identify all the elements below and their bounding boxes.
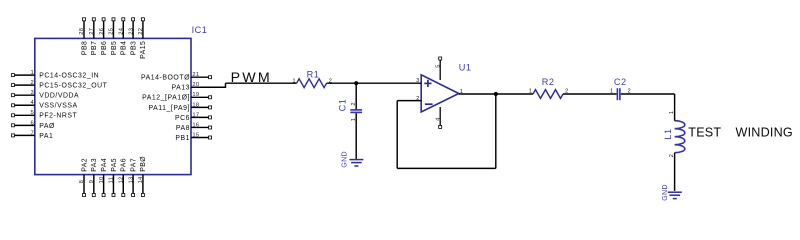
svg-text:13: 13 [128, 177, 134, 184]
svg-text:27: 27 [89, 28, 95, 35]
svg-text:VSS/VSSA: VSS/VSSA [39, 103, 77, 110]
svg-text:PA12_[PA1Ø]: PA12_[PA1Ø] [142, 95, 190, 102]
svg-text:5: 5 [30, 110, 33, 116]
svg-text:25: 25 [109, 28, 115, 35]
svg-text:4: 4 [30, 100, 34, 106]
svg-text:15: 15 [192, 132, 199, 138]
svg-text:7: 7 [30, 130, 33, 136]
svg-text:PA15: PA15 [140, 41, 147, 59]
svg-text:1: 1 [292, 78, 295, 84]
svg-text:PB6: PB6 [101, 41, 108, 55]
svg-text:6: 6 [30, 120, 33, 126]
svg-text:PA4: PA4 [101, 158, 108, 172]
svg-text:WINDING: WINDING [736, 126, 793, 140]
svg-text:PB1: PB1 [175, 135, 190, 142]
svg-text:2: 2 [565, 88, 568, 94]
svg-text:TEST: TEST [688, 126, 721, 140]
svg-text:11: 11 [109, 177, 115, 183]
svg-text:PA6: PA6 [121, 158, 128, 172]
svg-text:PBØ: PBØ [140, 156, 147, 172]
svg-text:3: 3 [416, 78, 419, 84]
svg-text:1: 1 [460, 89, 463, 95]
svg-text:1: 1 [30, 70, 33, 76]
svg-text:PF2-NRST: PF2-NRST [39, 113, 77, 120]
svg-text:1: 1 [529, 88, 532, 94]
svg-text:IC1: IC1 [192, 25, 208, 35]
svg-text:12: 12 [118, 177, 124, 184]
svg-text:24: 24 [118, 27, 124, 34]
svg-text:PA3: PA3 [91, 158, 98, 172]
svg-text:2: 2 [416, 96, 419, 102]
svg-text:L1: L1 [663, 128, 673, 139]
svg-text:2: 2 [329, 78, 332, 84]
svg-text:9: 9 [89, 180, 95, 183]
svg-text:PA11_[PA9]: PA11_[PA9] [148, 105, 190, 112]
svg-text:18: 18 [192, 102, 199, 108]
svg-text:14: 14 [138, 176, 144, 183]
svg-text:R1: R1 [307, 70, 320, 80]
svg-text:1: 1 [610, 89, 613, 95]
svg-text:16: 16 [192, 122, 199, 128]
svg-text:PA14-BOOTØ: PA14-BOOTØ [141, 75, 190, 82]
svg-text:2: 2 [628, 89, 631, 95]
svg-text:23: 23 [128, 28, 134, 35]
svg-text:GND: GND [662, 184, 669, 201]
svg-text:1: 1 [351, 118, 357, 121]
svg-text:PC15-OSC32_OUT: PC15-OSC32_OUT [39, 83, 107, 90]
svg-text:U1: U1 [459, 63, 472, 73]
svg-text:PA13: PA13 [171, 85, 190, 92]
svg-text:26: 26 [99, 28, 105, 35]
svg-text:19: 19 [192, 92, 199, 98]
svg-text:PA5: PA5 [111, 158, 118, 172]
svg-text:20: 20 [192, 82, 199, 88]
svg-text:28: 28 [79, 28, 85, 35]
svg-text:PB5: PB5 [111, 41, 118, 55]
svg-text:8: 8 [79, 180, 85, 183]
svg-text:PB3: PB3 [130, 41, 137, 55]
svg-text:2: 2 [30, 80, 33, 86]
svg-text:3: 3 [30, 90, 33, 96]
svg-text:PA2: PA2 [81, 158, 88, 172]
svg-text:PB4: PB4 [121, 41, 128, 55]
svg-text:2: 2 [351, 102, 357, 105]
svg-text:PWM: PWM [231, 70, 272, 86]
svg-text:PB7: PB7 [91, 41, 98, 55]
svg-text:PC6: PC6 [175, 115, 190, 122]
svg-text:PAØ: PAØ [39, 123, 55, 130]
svg-text:GND: GND [342, 151, 349, 168]
svg-text:21: 21 [192, 72, 199, 78]
svg-text:R2: R2 [542, 77, 555, 87]
svg-text:C1: C1 [338, 99, 348, 112]
svg-text:VDD/VDDA: VDD/VDDA [39, 93, 79, 100]
svg-text:17: 17 [192, 112, 199, 118]
svg-text:10: 10 [99, 177, 105, 184]
svg-text:PA8: PA8 [176, 125, 190, 132]
svg-text:1: 1 [669, 111, 675, 114]
svg-text:PB8: PB8 [81, 41, 88, 55]
svg-text:5: 5 [435, 65, 441, 68]
svg-text:PA1: PA1 [39, 133, 53, 140]
svg-text:PA7: PA7 [130, 158, 137, 172]
svg-text:2: 2 [669, 154, 675, 157]
svg-text:C2: C2 [614, 77, 627, 87]
svg-text:22: 22 [138, 28, 144, 35]
svg-text:PC14-OSC32_IN: PC14-OSC32_IN [39, 73, 99, 80]
